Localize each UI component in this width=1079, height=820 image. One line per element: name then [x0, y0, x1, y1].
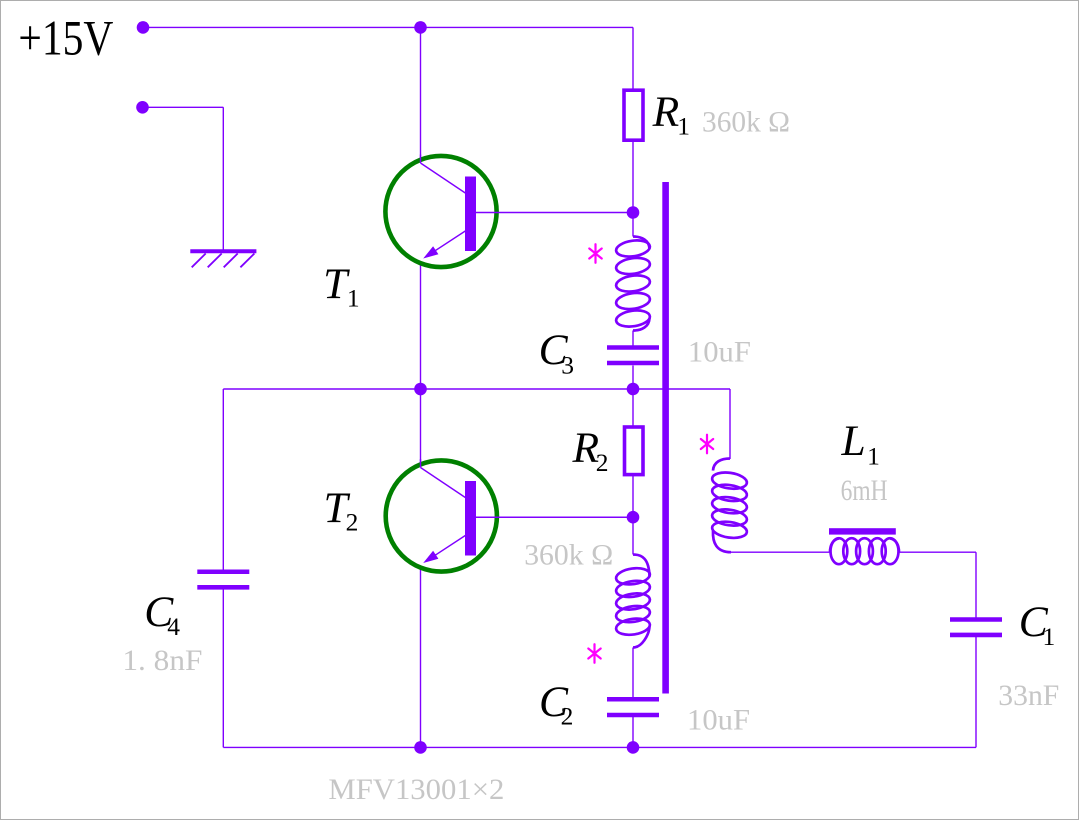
resistor R2 body — [625, 427, 644, 475]
node dot 3 — [136, 101, 149, 114]
wire secondary winding to L1 — [731, 551, 830, 553]
transformer core bar — [662, 182, 669, 694]
transformer primary winding lower — [615, 555, 651, 648]
wire C2 to bottom rail — [632, 717, 634, 748]
transformer primary winding upper — [615, 237, 651, 331]
node dot 7 — [627, 511, 640, 524]
wire top rail down through R1 to T1 base node — [632, 27, 634, 212]
transformer secondary winding — [711, 459, 748, 553]
wire primary winding 2 to C2 — [632, 648, 634, 698]
wire right branch down to C1 — [975, 552, 977, 617]
capacitor C3 body — [607, 345, 659, 350]
capacitor C2 body — [607, 697, 659, 702]
inductor L1 winding — [830, 538, 899, 564]
wire mid rail down to secondary winding — [729, 389, 731, 459]
wire T1 base node to primary winding 1 — [632, 213, 634, 237]
wire T2 base node to primary winding 2 — [632, 517, 634, 554]
wire mid horizontal rail — [223, 388, 730, 390]
node dot 4 — [627, 206, 640, 219]
wire primary winding 1 to C3 — [632, 331, 634, 346]
capacitor C4 body — [197, 570, 249, 575]
node dot 2 — [414, 21, 427, 34]
wire mid node through R2 to T2 base node — [632, 389, 634, 517]
wire T2 base to node — [476, 516, 633, 518]
wire +15V top rail — [143, 26, 633, 28]
resistor R1 body — [624, 90, 643, 140]
wire bottom rail — [223, 746, 976, 748]
node dot 8 — [414, 741, 427, 754]
node dot 5 — [414, 383, 427, 396]
wire vertical collector-emitter chain through T1 and T2 — [420, 27, 422, 747]
wire C4 to bottom rail — [222, 589, 224, 748]
capacitor C1 body — [950, 617, 1002, 622]
wire left vertical to C4 — [222, 389, 224, 570]
phase mark * lower primary — [588, 644, 600, 663]
phase mark * upper primary — [589, 244, 601, 263]
wire T1 base to node — [476, 212, 633, 214]
transistor T2 — [386, 459, 497, 572]
node dot 6 — [627, 383, 640, 396]
phase mark * secondary — [701, 435, 713, 454]
wire branch down to ground — [222, 107, 224, 250]
node dot 9 — [627, 741, 640, 754]
wire +15V return branch horizontal — [143, 106, 224, 108]
wire L1 to right branch — [899, 551, 976, 553]
transistor T1 — [385, 155, 496, 268]
node dot 1 — [137, 21, 150, 34]
inductor L1 core bar — [829, 528, 896, 534]
wire C1 down to bottom rail — [975, 637, 977, 747]
wire C3 to mid node — [632, 366, 634, 390]
ground symbol — [190, 249, 256, 253]
